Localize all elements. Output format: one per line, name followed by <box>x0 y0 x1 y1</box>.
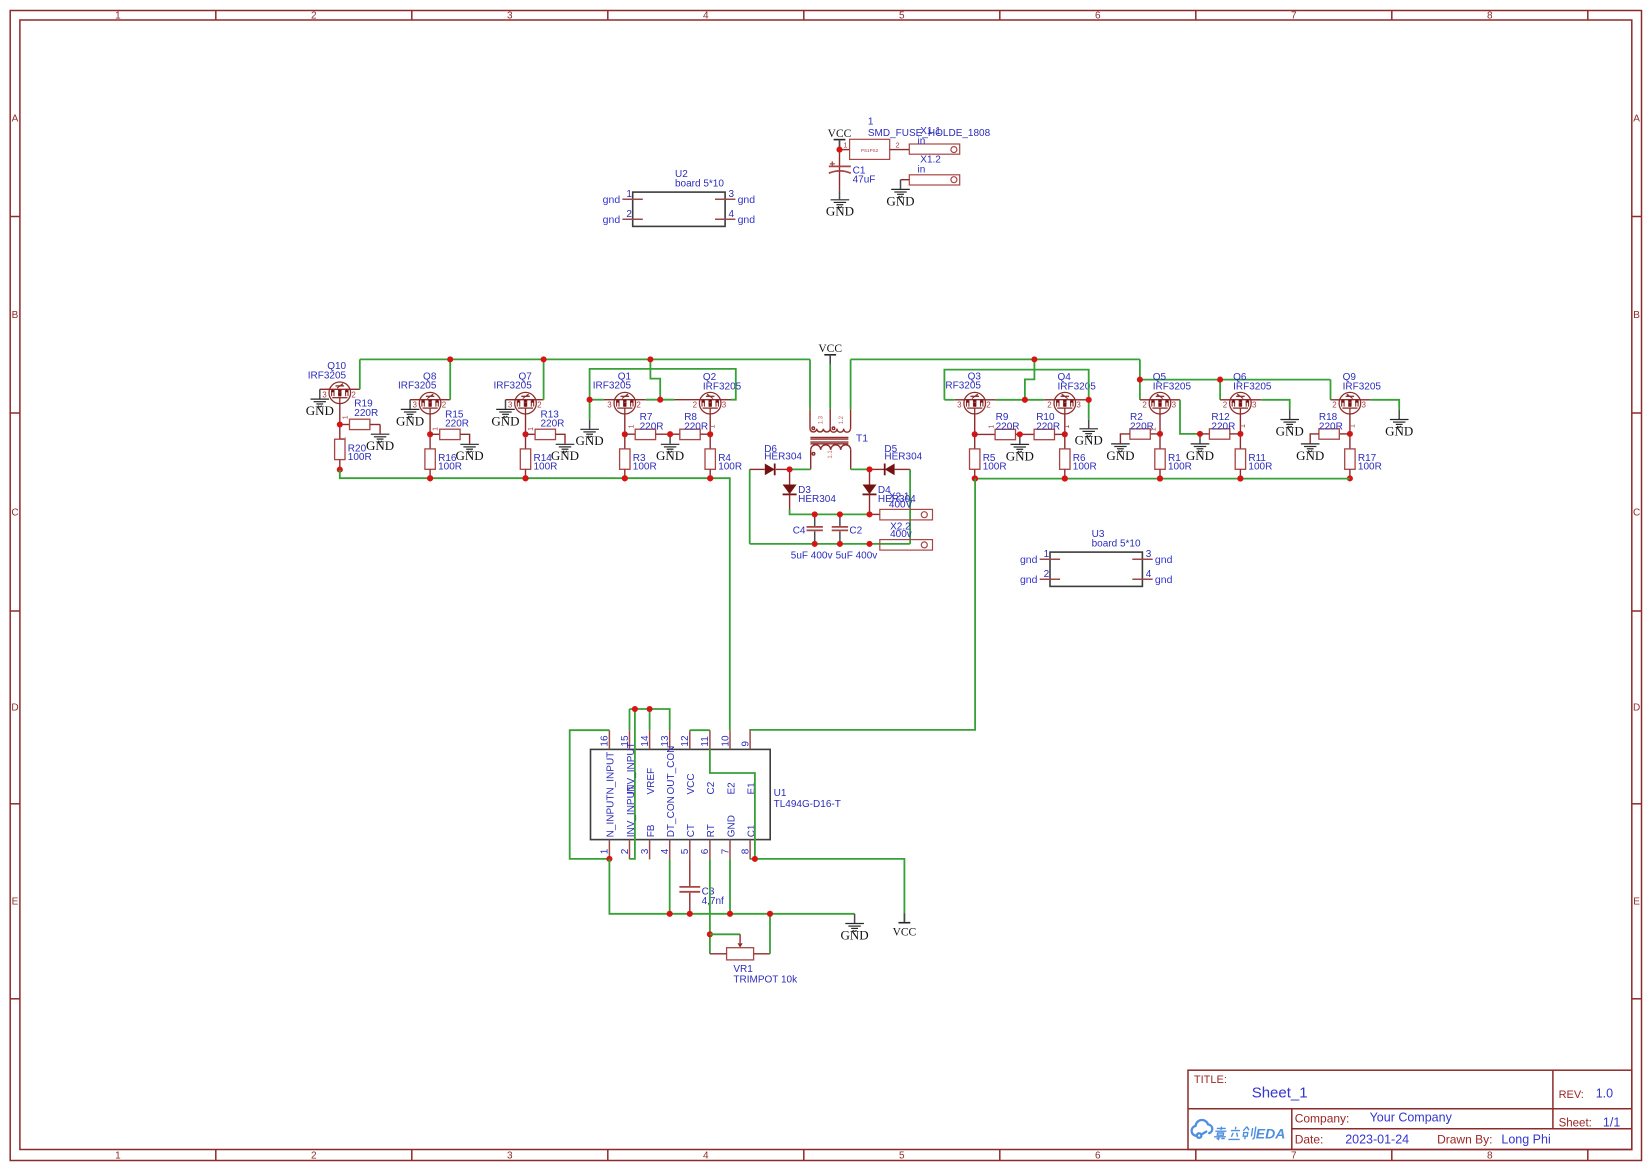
svg-text:4: 4 <box>729 209 735 220</box>
svg-text:C: C <box>1633 508 1640 519</box>
wire primary right riser (green) <box>850 359 852 409</box>
junction R1 bottom <box>1157 475 1163 481</box>
capacitor C2 5uF 400v <box>839 514 841 526</box>
svg-text:3: 3 <box>507 11 513 22</box>
svg-text:100R: 100R <box>1168 462 1192 473</box>
U1 pin 1 (N_INPUT) <box>608 840 610 860</box>
wire D5 anode lead <box>895 468 911 470</box>
svg-text:11: 11 <box>700 736 711 747</box>
junction Q3/Q4 drain <box>1022 397 1028 403</box>
wire R2 to ground <box>1120 434 1130 444</box>
wire Q4 gate <box>1064 414 1066 434</box>
ground (Q3/Q4 source) <box>1079 429 1098 437</box>
U1 pin 2 (INV_INPUT) <box>629 840 631 860</box>
svg-text:3: 3 <box>507 1151 513 1162</box>
wire X1.2 to ground <box>901 179 910 181</box>
U1 pin 10 (E2) <box>729 730 731 749</box>
svg-text:1: 1 <box>626 189 632 200</box>
svg-text:gnd: gnd <box>738 194 756 206</box>
ground (R19) <box>371 434 390 442</box>
junction rail Q3/Q4 <box>1031 356 1037 362</box>
wire R20 to bus <box>339 460 341 470</box>
capacitor C1 47uF <box>829 165 851 167</box>
wire left gate bus start <box>340 470 730 731</box>
wire Q1 source node <box>604 399 614 401</box>
resistor R9 220R <box>975 433 995 435</box>
wire Q8 source to ground <box>410 399 420 401</box>
junction rail2 Q6 <box>1217 377 1223 383</box>
fuse F1 SMD_FUSE_HOLDE_1808 <box>850 139 890 159</box>
svg-text:C4: C4 <box>793 526 806 537</box>
svg-text:GND: GND <box>656 448 684 463</box>
svg-text:2: 2 <box>1142 401 1147 410</box>
resistor R2 220R <box>1150 433 1160 435</box>
wire Q5 gate <box>1159 414 1161 434</box>
svg-text:3: 3 <box>1252 401 1257 410</box>
junction C3 bottom <box>687 911 693 917</box>
U1 pin 8 (C1) <box>749 840 751 860</box>
svg-text:VR1: VR1 <box>733 964 753 975</box>
svg-text:Sheet:: Sheet: <box>1559 1117 1592 1129</box>
wire D5 lead <box>870 468 885 470</box>
wire secondary right to D5 node <box>851 468 870 470</box>
svg-text:2: 2 <box>626 209 632 220</box>
svg-text:Sheet_1: Sheet_1 <box>1252 1084 1308 1101</box>
svg-text:1: 1 <box>1064 425 1071 429</box>
svg-text:C2: C2 <box>706 781 717 794</box>
svg-text:400v: 400v <box>890 529 912 540</box>
svg-text:1.3: 1.3 <box>819 415 825 424</box>
wire pin11 through-path to pin8 <box>710 749 755 859</box>
svg-text:3: 3 <box>722 401 727 410</box>
svg-text:1.1: 1.1 <box>828 450 834 459</box>
junction VCC node <box>836 147 842 153</box>
resistor R8 220R <box>670 433 680 435</box>
U2 pin 1 <box>622 198 642 200</box>
U3 pin 4 <box>1132 578 1152 580</box>
svg-text:FB: FB <box>646 824 657 837</box>
junction bus R11 <box>1237 476 1243 482</box>
svg-text:3: 3 <box>1146 549 1152 560</box>
junction VR1 right <box>767 911 773 917</box>
ground (Q1/Q2 source) <box>580 429 599 437</box>
wire R6 to gate bus <box>1064 469 1066 478</box>
svg-text:8: 8 <box>1487 1151 1493 1162</box>
svg-text:100R: 100R <box>1248 462 1272 473</box>
svg-text:220R: 220R <box>996 421 1020 432</box>
junction bus R16 <box>427 475 433 481</box>
resistor R11 100R <box>1239 434 1241 449</box>
wire Q9 gate <box>1349 414 1351 434</box>
junction Q3 gate <box>972 431 978 437</box>
transistor Q7 IRF3205 <box>515 392 537 414</box>
wire R14 to gate bus <box>525 469 527 478</box>
wire pin2 tall riser <box>630 709 635 859</box>
svg-text:1: 1 <box>868 117 874 128</box>
wire pin4 drop <box>669 859 671 913</box>
svg-text:1: 1 <box>629 424 636 428</box>
svg-text:2023-01-24: 2023-01-24 <box>1345 1133 1409 1147</box>
wire VCC rail (right segment) <box>851 358 1140 360</box>
EasyEDA logo <box>1192 1120 1213 1138</box>
svg-text:GND: GND <box>491 413 519 428</box>
wire VCC rail (left segment) <box>360 358 810 360</box>
wire R5 to gate bus <box>974 469 976 478</box>
junction D5/D4 <box>866 466 872 472</box>
wire Q1 gate <box>624 414 626 434</box>
U3 pin 2 <box>1040 578 1060 580</box>
svg-text:GND: GND <box>1296 448 1324 463</box>
svg-text:VCC: VCC <box>686 773 697 794</box>
wire R4 to gate bus <box>709 469 711 478</box>
wire D4 top lead <box>869 469 871 484</box>
U1 pin 16 (N_INPUT) <box>608 730 610 749</box>
resistor R18 220R <box>1340 433 1350 435</box>
svg-text:1.2: 1.2 <box>839 415 845 424</box>
wire Q8 gate <box>429 414 431 434</box>
svg-text:GND: GND <box>1006 448 1034 463</box>
resistor R17 100R <box>1349 434 1351 449</box>
svg-text:VCC: VCC <box>893 926 917 938</box>
ground (R15) <box>460 444 479 452</box>
power symbol VCC centre tap <box>824 354 836 356</box>
svg-text:in: in <box>918 136 926 147</box>
svg-text:N_INPUT: N_INPUT <box>606 795 617 838</box>
svg-text:6: 6 <box>1095 11 1101 22</box>
wire VR1 right to ground line <box>769 914 771 954</box>
svg-text:Long Phi: Long Phi <box>1501 1133 1550 1147</box>
junction bus R6 <box>1062 476 1068 482</box>
svg-text:HER304: HER304 <box>884 452 922 463</box>
junction R17 bottom <box>1347 475 1353 481</box>
wire R13 to ground <box>556 434 566 444</box>
svg-text:T1: T1 <box>856 432 868 444</box>
svg-text:Your Company: Your Company <box>1370 1111 1453 1125</box>
junction Q2 gate <box>707 431 713 437</box>
ground (Q10 source) <box>311 399 330 407</box>
svg-text:N_INPUT: N_INPUT <box>606 752 617 795</box>
wire D3 bottom lead <box>789 494 791 509</box>
wire Q3 drain <box>985 399 995 401</box>
wire Q10 drain to VCC rail <box>350 388 360 390</box>
junction bus R5 <box>972 476 978 482</box>
junction Q8 gate <box>427 431 433 437</box>
svg-text:220R: 220R <box>684 421 708 432</box>
junction C4 bottom <box>812 541 818 547</box>
svg-text:2: 2 <box>1044 569 1050 580</box>
svg-text:3: 3 <box>1362 401 1367 410</box>
svg-text:220R: 220R <box>1319 421 1343 432</box>
U3 pin 1 <box>1040 558 1060 560</box>
svg-text:7: 7 <box>1291 1151 1297 1162</box>
wire Q8 drain riser <box>441 399 451 401</box>
svg-text:1.0: 1.0 <box>1596 1086 1613 1100</box>
svg-text:3: 3 <box>413 401 418 410</box>
wire Q7 drain riser <box>536 399 544 401</box>
ground (Q8 source) <box>401 409 420 417</box>
junction R16 bottom <box>427 475 433 481</box>
junction pin1 node <box>606 856 612 862</box>
svg-text:5uF 400v: 5uF 400v <box>791 551 833 562</box>
transistor Q8 IRF3205 <box>419 392 441 414</box>
wire C1 to ground <box>839 171 841 190</box>
wire Q7 gate <box>525 414 527 434</box>
svg-text:gnd: gnd <box>738 214 756 226</box>
diode D4 HER304 <box>863 485 877 495</box>
wire Q3 gate <box>974 414 976 434</box>
resistor R19 220R <box>340 424 350 426</box>
wire D5 riser to bottom bus <box>909 469 911 544</box>
junction C2 bottom <box>837 541 843 547</box>
wire drain jog to rail <box>1025 359 1035 399</box>
junction pin8/C-net <box>752 856 758 862</box>
resistor R3 100R <box>624 434 626 449</box>
power symbol VCC bottom <box>903 913 905 923</box>
svg-text:7: 7 <box>1291 11 1297 22</box>
svg-text:IRF3205: IRF3205 <box>493 381 532 392</box>
junction R7/R8 node <box>667 431 673 437</box>
U3 pin 3 <box>1132 558 1152 560</box>
junction C4 top <box>812 511 818 517</box>
wire right bus to U1 pin 9 <box>750 479 975 731</box>
junction Q4 gate <box>1062 431 1068 437</box>
wire middle node ground <box>1019 434 1021 444</box>
ground (Q6 source) <box>1280 420 1299 428</box>
svg-text:GND: GND <box>1186 448 1214 463</box>
wire R8 to Q2 gate <box>700 433 710 435</box>
svg-text:1: 1 <box>528 427 535 431</box>
U1 pin 13 (OUT_CON) <box>669 730 671 749</box>
resistor R13 220R <box>526 433 536 435</box>
svg-text:OUT_CON: OUT_CON <box>666 746 677 795</box>
connector U3 board 5*10 <box>1050 552 1142 586</box>
wire Q4 drain <box>1044 399 1054 401</box>
wire R9 to middle node <box>1016 433 1020 435</box>
svg-text:D: D <box>11 703 18 714</box>
svg-text:14: 14 <box>640 735 651 747</box>
wire R10 to Q4 gate <box>1055 433 1065 435</box>
svg-text:8: 8 <box>1487 11 1493 22</box>
svg-text:1: 1 <box>843 140 847 149</box>
capacitor C3 4,7nf <box>689 859 691 886</box>
svg-text:2: 2 <box>311 1151 317 1162</box>
transistor Q5 IRF3205 <box>1149 392 1171 414</box>
svg-text:100R: 100R <box>1073 462 1097 473</box>
U1 pin 3 (FB) <box>649 840 651 860</box>
svg-text:TRIMPOT 10k: TRIMPOT 10k <box>733 975 798 986</box>
wire pin14 riser <box>649 709 651 730</box>
U2 pin 4 <box>715 218 735 220</box>
resistor R5 100R <box>974 434 976 449</box>
diode D5 HER304 <box>885 464 895 476</box>
svg-text:3: 3 <box>322 390 327 399</box>
svg-text:220R: 220R <box>541 419 565 430</box>
junction pin7 GND <box>727 911 733 917</box>
wire junction down to C1 <box>839 150 841 171</box>
wire Q10 gate <box>339 404 341 425</box>
svg-text:100R: 100R <box>718 462 742 473</box>
svg-text:board 5*10: board 5*10 <box>675 178 724 189</box>
junction R14 bottom <box>522 475 528 481</box>
svg-text:GND: GND <box>306 403 334 418</box>
junction rail Q8 <box>447 356 453 362</box>
resistor R20 100R <box>339 425 341 440</box>
ground (R13) <box>556 444 575 452</box>
transistor Q3 IRF3205 <box>964 392 986 414</box>
svg-text:IRF3205: IRF3205 <box>1343 382 1382 393</box>
svg-text:GND: GND <box>841 927 869 942</box>
resistor R15 220R <box>430 433 440 435</box>
svg-text:100R: 100R <box>438 462 462 473</box>
wire pin15/14/13 tie bar <box>630 709 670 730</box>
resistor R6 100R <box>1064 434 1066 449</box>
junction pin14 <box>647 706 653 712</box>
wire middle node ground <box>669 434 671 444</box>
junction C2 top <box>837 511 843 517</box>
resistor R1 100R <box>1159 434 1161 449</box>
wire D6 lead <box>750 468 765 470</box>
svg-text:47uF: 47uF <box>853 174 876 185</box>
ground (U1) <box>845 924 864 932</box>
wire R17 to gate bus <box>1349 469 1351 478</box>
junction bus R4 <box>707 475 713 481</box>
svg-text:E2: E2 <box>726 782 737 795</box>
svg-text:400V: 400V <box>889 499 913 510</box>
svg-text:7: 7 <box>720 848 731 854</box>
transistor Q4 IRF3205 <box>1054 392 1076 414</box>
wire R19 to ground <box>370 424 380 426</box>
junction Q7 gate <box>522 431 528 437</box>
U1 pin 12 (VCC) <box>689 730 691 749</box>
ground (X1.2) <box>891 189 910 197</box>
svg-text:IRF3205: IRF3205 <box>943 381 982 392</box>
svg-text:5: 5 <box>680 848 691 854</box>
wire Q7 source to ground <box>506 399 516 401</box>
svg-text:12: 12 <box>680 735 691 747</box>
diode D3 HER304 <box>783 485 797 495</box>
svg-text:IRF3205: IRF3205 <box>593 381 632 392</box>
svg-text:GND: GND <box>886 193 914 208</box>
svg-text:4,7nf: 4,7nf <box>702 896 724 907</box>
frame row letters <box>11 114 1640 908</box>
svg-text:100R: 100R <box>983 462 1007 473</box>
resistor R7 220R <box>625 433 635 435</box>
connector X2.2 <box>880 540 933 551</box>
svg-text:GND: GND <box>1385 423 1413 438</box>
wire pin8 to VCC <box>750 859 904 921</box>
svg-text:1: 1 <box>1240 424 1247 428</box>
ground (R7/R8) <box>661 444 680 452</box>
svg-text:2: 2 <box>1223 401 1228 410</box>
svg-text:4: 4 <box>660 848 671 854</box>
svg-text:2: 2 <box>636 401 641 410</box>
connector X2.1 <box>880 509 933 520</box>
svg-text:TL494G-D16-T: TL494G-D16-T <box>774 799 841 810</box>
wire R11 to gate bus <box>1239 469 1241 478</box>
transistor Q9 IRF3205 <box>1339 392 1361 414</box>
svg-text:4: 4 <box>703 1151 709 1162</box>
svg-text:9: 9 <box>740 741 751 747</box>
svg-text:B: B <box>1633 310 1640 321</box>
wire pin16 to pin1 loop <box>570 730 610 859</box>
svg-text:1: 1 <box>1044 549 1050 560</box>
wire Q1 drain <box>635 399 645 401</box>
ground (R2) <box>1111 444 1130 452</box>
wire VCC junction to fuse <box>840 149 850 151</box>
diode D6 HER304 <box>765 464 775 476</box>
svg-text:Company:: Company: <box>1295 1112 1350 1126</box>
junction D6/D3 <box>787 466 793 472</box>
svg-text:GND: GND <box>576 433 604 448</box>
svg-text:3: 3 <box>508 401 513 410</box>
svg-text:VCC: VCC <box>828 128 852 140</box>
svg-text:HER304: HER304 <box>798 494 836 505</box>
op-amp U1 TL494G-D16-T <box>591 749 771 839</box>
svg-text:VCC: VCC <box>818 343 842 355</box>
U1 pin 15 (INV_INPUT) <box>629 730 631 749</box>
junction R3 bottom <box>622 475 628 481</box>
svg-text:U1: U1 <box>774 788 787 799</box>
svg-text:gnd: gnd <box>603 194 621 206</box>
wire R16 to gate bus <box>429 469 431 478</box>
svg-text:5uF 400v: 5uF 400v <box>836 551 878 562</box>
wire Q2 gate <box>709 414 711 434</box>
wire Q6 drain riser <box>1219 380 1221 400</box>
svg-text:220R: 220R <box>640 421 664 432</box>
junction Q5 gate <box>1157 431 1163 437</box>
wire pin6 to trimpot <box>709 859 711 953</box>
transistor Q10 IRF3205 <box>329 382 351 404</box>
svg-text:Date:: Date: <box>1295 1132 1324 1146</box>
svg-text:gnd: gnd <box>1020 554 1038 566</box>
wire D3 to output line <box>790 509 815 514</box>
U1 pin 11 (C2) <box>709 730 711 749</box>
svg-text:gnd: gnd <box>603 214 621 226</box>
svg-text:1: 1 <box>115 11 121 22</box>
U1 pin 4 (DT_CON) <box>669 840 671 860</box>
wire output to X2.1 <box>870 513 880 515</box>
wire rail drop to Q5 <box>1139 359 1141 399</box>
transistor Q1 IRF3205 <box>614 392 636 414</box>
svg-text:GND: GND <box>1276 423 1304 438</box>
transistor Q6 IRF3205 <box>1230 392 1252 414</box>
junction rail2 start <box>1137 377 1143 383</box>
ground (R18) <box>1301 444 1320 452</box>
svg-text:IRF3205: IRF3205 <box>308 370 347 381</box>
junction Q10 gate <box>337 421 343 427</box>
svg-text:EDA: EDA <box>1256 1126 1286 1142</box>
svg-text:IRF3205: IRF3205 <box>1058 382 1097 393</box>
svg-text:HER304: HER304 <box>764 452 802 463</box>
svg-text:gnd: gnd <box>1155 554 1173 566</box>
junction Q5s/R12 <box>1197 431 1203 437</box>
junction R4 bottom <box>707 475 713 481</box>
svg-text:3: 3 <box>607 401 612 410</box>
svg-text:C2: C2 <box>849 526 862 537</box>
svg-text:IRF3205: IRF3205 <box>1233 382 1272 393</box>
svg-text:IRF3205: IRF3205 <box>1153 382 1192 393</box>
resistor R4 100R <box>709 434 711 449</box>
svg-text:GND: GND <box>826 204 854 219</box>
junction pin4 <box>667 911 673 917</box>
wire Q3/Q4 source loop <box>944 370 1088 400</box>
wire Q2 drain <box>675 399 700 401</box>
wire Q4 source <box>1075 399 1085 401</box>
junction bus R3 <box>622 475 628 481</box>
svg-text:A: A <box>12 114 19 125</box>
wire pin7 drop <box>729 859 731 913</box>
svg-text:in: in <box>918 164 926 175</box>
